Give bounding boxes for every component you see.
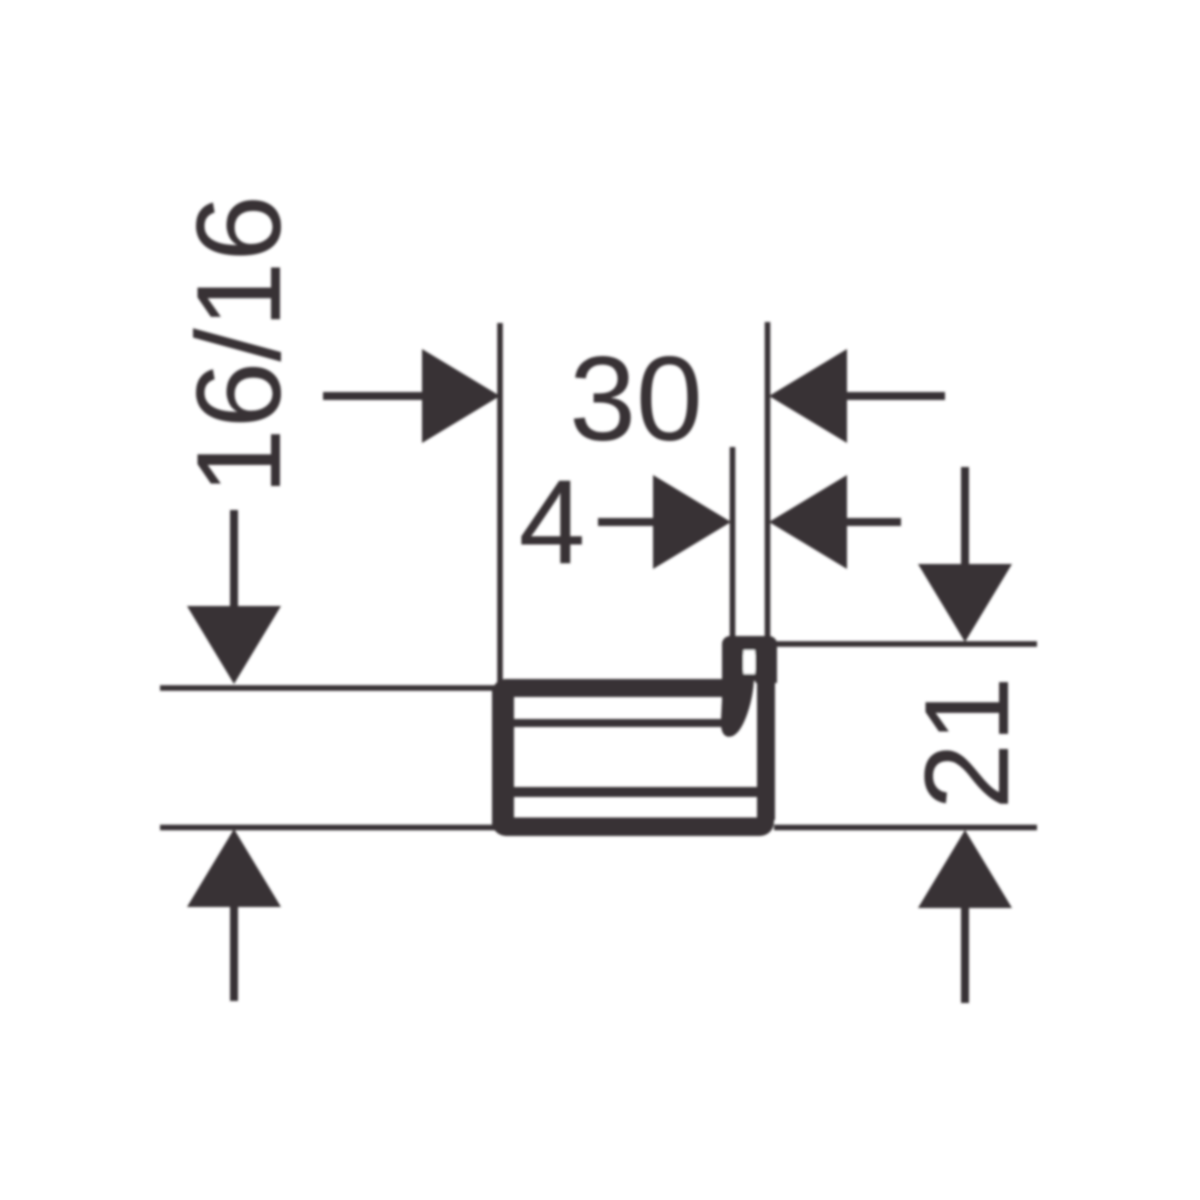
svg-text:21: 21 xyxy=(900,676,1034,809)
svg-text:4: 4 xyxy=(519,455,586,589)
svg-text:16/16: 16/16 xyxy=(172,195,306,495)
svg-text:30: 30 xyxy=(569,332,702,466)
